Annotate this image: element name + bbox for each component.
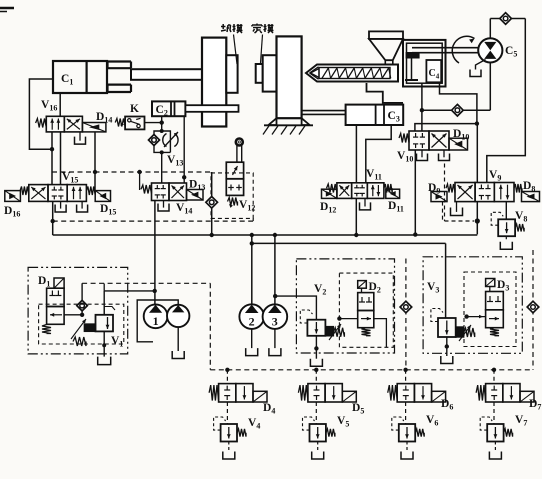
wire V13 to valve V14 xyxy=(161,152,163,183)
dashed box D2 group xyxy=(339,273,393,347)
dashed pilot line upper xyxy=(52,171,212,173)
valve V14 with solenoid D13 xyxy=(152,183,170,201)
leader line moving mold xyxy=(234,35,238,65)
wire V9 center to bus xyxy=(476,125,478,183)
node V10 line on bus xyxy=(413,232,417,236)
tank under pump 1b xyxy=(172,351,184,359)
corner mark top-left xyxy=(0,7,14,10)
node D14 drain on pilot line xyxy=(93,170,97,174)
motor drain to tank xyxy=(476,60,486,70)
motor top line with check valve xyxy=(489,19,491,39)
solenoid D15 box xyxy=(95,191,110,202)
node pump3 branch to V2 xyxy=(273,294,277,298)
wire pilot down to V14 spring side xyxy=(139,172,141,190)
wire C1 bottom to V16 xyxy=(59,93,61,116)
valve V10 with solenoid D10 xyxy=(409,131,429,150)
V2 pilot hook xyxy=(300,310,312,323)
solenoid D16 box xyxy=(5,191,21,202)
tank under V14 xyxy=(163,201,165,208)
hopper xyxy=(369,31,403,39)
tank under V11 xyxy=(364,198,366,206)
label 动模 (moving mold) xyxy=(221,26,226,28)
solenoid D14 box xyxy=(82,123,106,132)
solenoid D13 box xyxy=(187,190,204,201)
tanks under V10 xyxy=(421,150,423,157)
dashed box D3 group xyxy=(464,272,516,347)
node on V16-V15 riser xyxy=(50,147,54,151)
pump suction frame xyxy=(137,300,178,342)
dashed wire D6 to V6 xyxy=(405,402,407,424)
pump 1 xyxy=(144,304,168,328)
label 定模 (fixed mold) xyxy=(256,24,258,26)
drive piston flange xyxy=(406,53,419,58)
relief valve V6 xyxy=(399,424,415,442)
solenoid D8 box xyxy=(522,192,540,202)
wire pump3 to V2 xyxy=(275,296,316,320)
tanks under V15 xyxy=(60,201,62,208)
fixed mold half xyxy=(256,64,263,83)
wires V16 to V15 xyxy=(51,132,53,185)
tank under pump3 xyxy=(269,348,281,356)
dashed box around V12 xyxy=(211,173,253,219)
wire V2 to tank xyxy=(315,336,317,359)
wire V1 to tank xyxy=(103,331,105,356)
injection drive unit frame xyxy=(403,40,446,87)
dashed wire D5 to V5 xyxy=(315,402,317,424)
V2 throttle block xyxy=(325,327,333,336)
wire V11 to bus xyxy=(355,198,357,235)
rotation arrow xyxy=(452,36,474,63)
cylinder C1 yoke xyxy=(108,62,132,69)
check valve top-right xyxy=(500,13,512,25)
dashed remote pilot from V1 xyxy=(82,282,210,284)
cylinder C2 xyxy=(152,101,185,116)
hydraulic motor C5 xyxy=(478,38,502,62)
tank under V7 xyxy=(494,442,496,452)
tank under V3 xyxy=(441,356,453,364)
dash-dot box V3 group xyxy=(423,257,522,354)
node bus V11 xyxy=(354,233,358,237)
wire D2 right drain xyxy=(374,319,387,348)
screw drive shaft xyxy=(412,47,478,49)
tank under V4 xyxy=(228,442,230,452)
tank under V5 xyxy=(317,442,319,452)
V3 pilot hook xyxy=(431,309,443,322)
moving platen xyxy=(202,38,226,127)
relief valve V1 xyxy=(73,337,86,346)
tank under V9 xyxy=(456,202,458,212)
check valve C5 line xyxy=(422,109,490,111)
dashed pilot V10 to V9 xyxy=(444,164,446,222)
node pilot to V14 xyxy=(137,170,141,174)
V3 throttle block xyxy=(456,327,464,337)
ground hatching under fixed platen xyxy=(264,124,313,126)
node pilot bus D5 xyxy=(314,368,318,372)
fixed platen feet xyxy=(269,118,277,125)
wire pump3 riser xyxy=(274,235,276,304)
wire C1 left to V16/V15 riser xyxy=(29,79,53,149)
wire C4 drain xyxy=(440,83,477,123)
node pilot bus D7 xyxy=(492,368,496,372)
valve D7 3/2 solenoid xyxy=(493,370,495,384)
wire K to C2 line xyxy=(145,122,162,124)
wire V15 to manifold bus xyxy=(52,201,54,235)
unloading valve V3 xyxy=(438,318,456,337)
valve D5 3/2 solenoid xyxy=(315,370,317,384)
pump 1b xyxy=(167,305,189,327)
cylinder C3 xyxy=(346,105,404,125)
solenoid D10 box xyxy=(449,138,468,150)
pump 2 xyxy=(239,304,264,329)
wire pump3 to tank xyxy=(274,329,276,348)
wire C2 rod side to V14 xyxy=(183,116,185,183)
wire C4-drain junction to V10 left port xyxy=(415,124,477,131)
wire D14 drain down xyxy=(94,132,96,191)
tank under V8 xyxy=(505,236,507,242)
node C2 port xyxy=(160,120,164,124)
tank under V6 xyxy=(406,442,408,452)
fixed platen xyxy=(277,36,302,118)
node pilot bus D6 xyxy=(403,368,407,372)
dashed pilot box in V1 group xyxy=(39,304,124,344)
C3 piston rod xyxy=(302,110,346,112)
wire right edge down to valve V9 xyxy=(487,19,526,183)
node bus pump3 xyxy=(273,233,277,237)
relief valve V4 xyxy=(221,424,237,442)
leader line fixed mold xyxy=(261,35,263,64)
C1 piston rod xyxy=(131,69,202,80)
wire pump1 riser to V14 xyxy=(154,201,156,305)
node at C4 drain junction xyxy=(475,121,479,125)
wire D1 to V1 pilot node xyxy=(64,314,82,316)
C2 piston rod xyxy=(185,105,238,112)
svg-text:3: 3 xyxy=(272,314,278,328)
tank under V16 xyxy=(79,132,81,141)
throttle in V13 xyxy=(163,134,167,147)
relief valve V7 xyxy=(487,424,503,442)
wire V1 supply from pump 1 xyxy=(103,284,105,291)
check valve on left dashed riser xyxy=(400,301,412,313)
flow control valve V13 with bypass check xyxy=(154,131,170,152)
pump 3 xyxy=(263,304,288,329)
check valve in V1 group xyxy=(81,283,83,315)
unloading valve V2 xyxy=(307,320,325,336)
cylinder C4 xyxy=(426,60,441,82)
screw with flights xyxy=(319,68,390,79)
solenoid D11 box xyxy=(386,189,400,198)
node dashed lower pilot start xyxy=(51,219,55,223)
cylinder C1 xyxy=(53,61,107,93)
wire pump2 riser xyxy=(251,235,253,304)
wire V10 to bus xyxy=(414,150,416,235)
wire C2 bottom port xyxy=(161,116,163,127)
svg-text:1: 1 xyxy=(153,314,159,328)
solenoid D12 box xyxy=(322,189,337,198)
dashed lower pilot line xyxy=(53,220,253,222)
check valve on right dashed riser xyxy=(527,301,539,313)
wire C3 left port to V11 xyxy=(355,125,357,183)
node pilot bus D4 xyxy=(225,368,229,372)
dash-dot box V1 manifold xyxy=(28,267,128,354)
second bus to V3 xyxy=(252,242,446,244)
dashed pilot bus xyxy=(210,369,533,371)
wire V2 pilot to D2 xyxy=(339,318,357,320)
svg-text:2: 2 xyxy=(249,314,255,328)
node on C3/V10 riser xyxy=(420,108,424,112)
node on C2 rod line xyxy=(182,175,186,179)
tank under V2 xyxy=(310,359,322,367)
node pump1 branch xyxy=(153,289,157,293)
moving mold half xyxy=(226,55,237,93)
wire V3 to tank xyxy=(446,337,448,356)
valve D6 3/2 solenoid xyxy=(405,370,407,384)
check valve in V13 xyxy=(149,135,160,146)
carriage body step xyxy=(367,83,404,103)
relief valve V5 xyxy=(310,424,326,442)
check valve near V14 xyxy=(211,172,213,235)
dashed wire D7 to V7 xyxy=(493,402,495,424)
wire pump2 to tank xyxy=(251,329,253,348)
node bus pump2 xyxy=(250,233,254,237)
dashed riser with check to V2 area xyxy=(405,259,407,370)
dashed wire D4 to V4 xyxy=(226,402,228,424)
svg-text:K: K xyxy=(130,103,139,115)
tank under V1 xyxy=(98,357,111,365)
node bus check xyxy=(210,233,214,237)
solenoid D9 box xyxy=(431,192,447,202)
wire pump1b to tank xyxy=(177,327,179,351)
dashed riser right with check xyxy=(532,250,534,370)
wire C3 right port to V11 xyxy=(366,125,391,183)
dashed pilot D9 drain xyxy=(442,202,444,221)
tank under pump2 xyxy=(246,348,258,356)
node second bus xyxy=(250,241,254,245)
injection barrel and nozzle xyxy=(306,65,398,82)
limit roller valve V12 xyxy=(236,139,243,146)
wire motor bottom to check line xyxy=(489,63,491,111)
dash-dot box V2 group xyxy=(296,259,394,353)
main pressure bus xyxy=(53,234,478,236)
node pilot on V9 center line xyxy=(475,218,480,223)
wire V3 pilot to D3 xyxy=(467,316,486,318)
wire drive unit to V10 xyxy=(421,83,423,131)
valve D4 3/2 solenoid xyxy=(226,370,228,384)
